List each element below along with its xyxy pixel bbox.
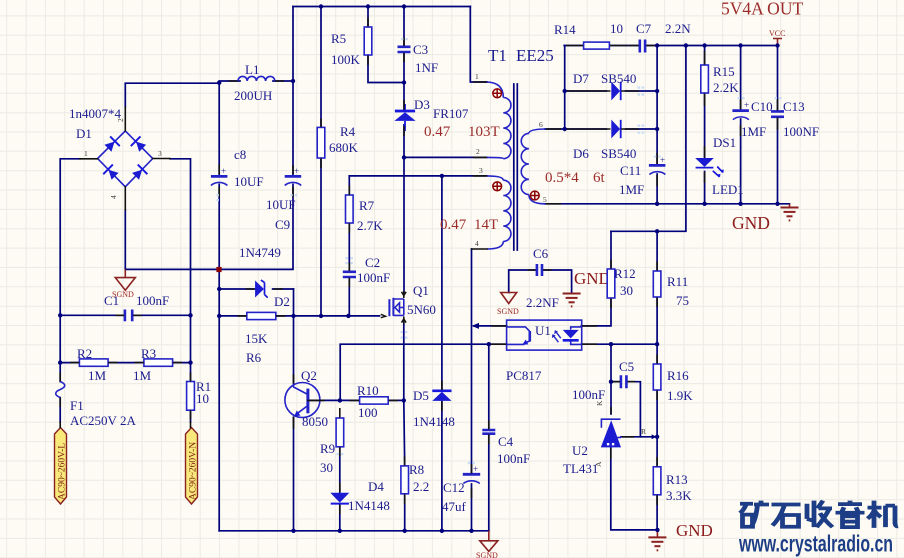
svg-text:C2: C2 [365, 255, 380, 270]
svg-text:+: + [221, 166, 226, 176]
wire C5 node to TL431 cathode [610, 382, 612, 414]
svg-text:3: 3 [479, 166, 483, 175]
wire T1 pin4 chain down to C12 [471, 249, 473, 474]
wire C4 bottom to rail [488, 434, 490, 531]
node out rail DS1 [702, 202, 706, 206]
svg-text:FR107: FR107 [433, 106, 469, 121]
svg-text:1n4007*4: 1n4007*4 [69, 106, 122, 121]
node C5 tap [609, 380, 613, 384]
svg-text:100: 100 [358, 405, 378, 420]
node vcc rail fb [684, 43, 688, 47]
node out rail C13 [775, 202, 779, 206]
capacitor C13 [771, 111, 784, 116]
wire feedback row to VCC drop [611, 46, 686, 232]
pin R5 [367, 18, 369, 66]
wire R12 top to feedback node [610, 231, 612, 269]
svg-text:10UF: 10UF [266, 197, 296, 212]
node L1 right [291, 79, 295, 83]
wire TL431 ref row [621, 436, 657, 438]
svg-text:0.5*4: 0.5*4 [545, 170, 579, 186]
ground GND earth bottom [648, 537, 666, 550]
svg-text:100K: 100K [331, 52, 361, 67]
svg-text:D2: D2 [274, 294, 290, 309]
svg-text:10UF: 10UF [234, 174, 264, 189]
wire T1 pin3 row [349, 175, 487, 177]
wire R13 bottom to GND node [656, 495, 658, 530]
wire TL431 anode to GND node [611, 447, 658, 530]
svg-text:LED1: LED1 [712, 182, 744, 197]
svg-text:0.47: 0.47 [440, 217, 467, 233]
svg-text:2: 2 [476, 147, 480, 156]
wire L1 left pin [219, 80, 240, 82]
pin D2 [246, 288, 284, 290]
svg-text:14T: 14T [474, 217, 498, 233]
wire drain node down to Q1 drain [403, 157, 405, 294]
node rail R8 [403, 529, 407, 533]
svg-text:4: 4 [475, 239, 479, 248]
svg-text:103T: 103T [468, 124, 500, 140]
svg-text:100nF: 100nF [572, 387, 605, 402]
svg-text:D3: D3 [414, 97, 430, 112]
diode D5 [432, 391, 451, 401]
svg-text:100nF: 100nF [357, 270, 390, 285]
wire fuse F1 bottom to port AC-L [59, 398, 61, 422]
svg-text:30: 30 [620, 283, 633, 298]
T1 primary winding 103T [487, 82, 511, 159]
node gate R4 [319, 314, 323, 318]
pin R2 [70, 362, 118, 364]
diode D2 zener [255, 280, 268, 298]
wire D5 anode to bottom rail [441, 401, 443, 531]
ground GND C6 earth [563, 294, 581, 307]
svg-text:D4: D4 [368, 479, 384, 494]
node gate D2 [291, 314, 295, 318]
svg-text:C5: C5 [619, 359, 634, 374]
wire opto anode to R12 [581, 298, 611, 326]
junction red dot [216, 267, 221, 272]
node K row R12 [609, 342, 613, 346]
pin D7 [567, 90, 640, 92]
svg-text:www.crystalradio.cn: www.crystalradio.cn [738, 531, 893, 557]
capacitor C5 [621, 375, 627, 388]
svg-text:D1: D1 [76, 126, 92, 141]
wire Q2 emitter to bottom rail [293, 417, 295, 531]
pin C13 [777, 99, 779, 130]
svg-text:3.3K: 3.3K [666, 488, 692, 503]
wire D6 cathode to bus [626, 128, 658, 130]
svg-text:R10: R10 [357, 383, 379, 398]
ground SGND bridge [112, 269, 135, 299]
wire R13 top pin [656, 437, 658, 467]
resistor R16 [653, 364, 661, 390]
capacitor C1 [125, 310, 132, 322]
svg-text:100nF: 100nF [136, 293, 169, 308]
pin R3 [135, 362, 183, 364]
wire R8 bottom to rail [404, 494, 406, 531]
node rail D4 [338, 529, 342, 533]
svg-text:SB540: SB540 [601, 146, 636, 161]
svg-text:DS1: DS1 [713, 135, 736, 150]
pin C10 [740, 99, 742, 136]
svg-text:GND: GND [574, 269, 611, 288]
T1 polarity dot primary [493, 89, 502, 98]
capacitor C2 [343, 272, 356, 277]
svg-text:2.2: 2.2 [413, 479, 429, 494]
wire secondary bottom rail [545, 203, 790, 205]
wire L1 node down to C9 top [292, 81, 294, 175]
svg-text:C6: C6 [533, 246, 549, 261]
wire R4 top to HV bus [320, 7, 322, 128]
wire C11 bottom to output rail [656, 174, 658, 204]
svg-text:15K: 15K [245, 331, 268, 346]
svg-text:D6: D6 [573, 146, 589, 161]
node C4 top [487, 342, 491, 346]
capacitor C3 [398, 47, 411, 52]
pin C6 [528, 269, 552, 271]
svg-text:R: R [641, 427, 646, 436]
svg-text:AC250V 2A: AC250V 2A [70, 413, 136, 428]
svg-text:C4: C4 [498, 434, 514, 449]
pin R10 [350, 399, 399, 401]
pin C11 [656, 153, 658, 186]
node vcc rail C10 [738, 43, 742, 47]
pin D6 [567, 128, 640, 130]
wire C6 right [543, 270, 572, 293]
wire D7 anode row [565, 90, 607, 92]
svg-text:3: 3 [158, 149, 162, 158]
wire opto collector row [474, 325, 507, 327]
ground SGND bottom rail [476, 531, 498, 558]
wire C5 right to ref row [627, 382, 640, 437]
node R2 left [58, 360, 62, 364]
wire C10 bottom to rail [740, 119, 742, 204]
wire C3 top [403, 7, 405, 47]
capacitor C9 [285, 166, 302, 186]
wire D7 cathode to bus [626, 90, 658, 92]
node pin3 tap [440, 174, 444, 178]
svg-text:R3: R3 [141, 346, 156, 361]
svg-text:AC90~260V-N: AC90~260V-N [189, 442, 199, 500]
pin C2 [348, 263, 350, 288]
optocoupler U1 PC817 [507, 320, 582, 350]
node D7 anode [563, 89, 567, 93]
transformer T1 core [514, 84, 518, 250]
svg-text:8050: 8050 [302, 414, 328, 429]
svg-text:+: + [744, 100, 749, 110]
svg-text:2.2K: 2.2K [713, 80, 739, 95]
svg-text:SGND: SGND [112, 290, 134, 299]
pin D4 [339, 483, 341, 515]
diode D3 [394, 104, 415, 131]
pin R13 [656, 457, 658, 505]
bridge rectifier D1 [80, 107, 170, 210]
svg-text:R12: R12 [614, 266, 636, 281]
wire R10 right to sense node [388, 399, 404, 401]
T1 polarity dot secondary [530, 191, 539, 200]
svg-text:680K: 680K [329, 140, 359, 155]
svg-text:C11: C11 [620, 163, 641, 178]
ground GND earth output [781, 208, 799, 221]
resistor R5 [364, 27, 372, 55]
svg-text:47uf: 47uf [442, 499, 467, 514]
svg-text:L1: L1 [245, 62, 259, 77]
node vcc rail C13 [775, 43, 779, 47]
wire snubber node to D3 cathode [403, 83, 405, 111]
watermark logo [740, 501, 898, 528]
svg-text:5N60: 5N60 [407, 302, 436, 317]
diode D7 [611, 82, 620, 101]
wire bridge pin2 to DC+ node [125, 83, 219, 107]
svg-text:10: 10 [196, 391, 209, 406]
wire Q1 source down to sense node [403, 322, 405, 400]
node D2 left [217, 287, 221, 291]
svg-text:1N4148: 1N4148 [413, 414, 455, 429]
capacitor C12 [463, 464, 480, 484]
mosfet Q1 [381, 291, 406, 324]
svg-text:10: 10 [610, 21, 623, 36]
node fb R11 [655, 229, 659, 233]
svg-text:Q2: Q2 [301, 368, 317, 383]
node drain [402, 155, 406, 159]
svg-text:C13: C13 [783, 99, 805, 114]
svg-text:R14: R14 [554, 22, 576, 37]
svg-text:2.7K: 2.7K [357, 218, 383, 233]
node HV bus R4 [319, 4, 323, 8]
pin D3 [403, 100, 405, 136]
node rail D5 [440, 529, 444, 533]
wire opto emitter row to Q2 base node [340, 344, 506, 400]
wire R14 left corner [564, 45, 583, 47]
port AC90~260V-N [186, 422, 199, 504]
svg-text:+: + [294, 166, 299, 176]
svg-text:VCC: VCC [769, 29, 785, 38]
svg-text:0.47: 0.47 [424, 124, 451, 140]
resistor R14 [584, 42, 610, 49]
node HV bus C3 [402, 4, 406, 8]
svg-text:R9: R9 [320, 441, 335, 456]
svg-text:+: + [473, 464, 478, 474]
wire D2 row [219, 288, 293, 290]
shunt regulator U2 TL431 [601, 419, 657, 447]
node Q2 base [338, 398, 342, 402]
pin T1-2 [473, 156, 487, 158]
diode D4 [330, 493, 349, 504]
wire T1 pin1 drop from HV bus [470, 7, 487, 83]
svg-text:R11: R11 [667, 274, 688, 289]
node R3 right [188, 360, 192, 364]
resistor R11 [653, 271, 661, 297]
svg-text:C3: C3 [413, 42, 428, 57]
svg-text:TL431: TL431 [563, 461, 598, 476]
pin U2 [611, 407, 634, 459]
wire C9 bottom to SGND row [219, 185, 293, 270]
svg-text:30: 30 [320, 460, 333, 475]
svg-text:1M: 1M [133, 368, 152, 383]
svg-text:1: 1 [475, 72, 479, 81]
svg-text:Q1: Q1 [413, 283, 429, 298]
pin C7 [629, 45, 655, 47]
pin R7 [348, 186, 350, 234]
svg-text:U2: U2 [572, 443, 588, 458]
svg-text:D7: D7 [573, 71, 589, 86]
node C1 right [188, 313, 192, 317]
port AC90~260V-L [55, 422, 68, 504]
wire R16 top pin [656, 344, 658, 364]
wire bridge pin3 to AC-N line [170, 159, 191, 382]
resistor R10 [360, 397, 389, 404]
resistor R13 [653, 467, 661, 495]
wire C13 top pin [777, 46, 779, 111]
wire gate row [219, 315, 379, 317]
wire GND stem bottom [656, 530, 658, 537]
wire c8 top vertical [218, 83, 220, 175]
resistor R15 [701, 65, 709, 93]
pin T1-3 [473, 175, 487, 177]
wire sense node to R8 [403, 400, 406, 466]
node gate C2 [346, 314, 350, 318]
svg-text:75: 75 [676, 293, 689, 308]
svg-text:C9: C9 [275, 217, 290, 232]
wire R4 bottom to gate row [320, 158, 322, 316]
svg-text:GND: GND [732, 213, 770, 233]
pin T1-6 [546, 128, 561, 130]
power VCC symbol [769, 29, 785, 46]
T1 polarity dot aux [493, 182, 502, 191]
wire R1 bottom to port AC-N [190, 410, 192, 422]
wire R2 R3 row [60, 362, 190, 364]
node gate R6 left [217, 314, 221, 318]
pin C1 [116, 314, 142, 316]
wire pin3 chain down to D5 [441, 176, 443, 390]
node out rail C11 [655, 202, 659, 206]
svg-text:C10: C10 [751, 99, 773, 114]
wire R11 top pin [656, 231, 658, 271]
capacitor C4 [482, 430, 495, 434]
wire primary bottom rail [219, 530, 489, 532]
wire output GND stem [789, 204, 791, 207]
T1 aux winding 14T [472, 176, 511, 249]
wire snubber drop x564 [564, 46, 566, 130]
svg-text:100nF: 100nF [497, 451, 530, 466]
pin R6 [238, 315, 286, 317]
wire D4 cathode to rail [339, 504, 341, 531]
svg-text:c8: c8 [234, 147, 246, 162]
node gnd [655, 528, 659, 532]
pin R16 [656, 355, 658, 401]
resistor R1 [187, 382, 195, 411]
svg-text:R4: R4 [340, 124, 356, 139]
capacitor C11 [649, 155, 666, 175]
svg-text:1MF: 1MF [619, 182, 644, 197]
node rail C12 [469, 529, 473, 533]
svg-text:C7: C7 [636, 21, 652, 36]
svg-text:1N4148: 1N4148 [348, 498, 390, 513]
capacitor c8 [211, 166, 228, 186]
node vcc rail C7 [655, 43, 659, 47]
wire VCC top rail [646, 45, 778, 47]
svg-text:R7: R7 [359, 198, 375, 213]
wire R15 top pin [704, 46, 706, 66]
wire C3 bottom to snubber node [403, 53, 405, 83]
component pin stubs (black) [60, 18, 777, 515]
node vcc rail R15 [702, 43, 706, 47]
wire drain node to T1 pin2 [404, 156, 487, 158]
wire C1 row right [133, 314, 191, 316]
wire C5 left pin [611, 381, 620, 383]
diode D6 [611, 120, 620, 139]
pin T1-1 [473, 81, 487, 83]
svg-text:SGND: SGND [497, 307, 519, 316]
resistor R6 [247, 312, 276, 319]
svg-text:5: 5 [543, 195, 547, 204]
svg-text:AC90~260V-L: AC90~260V-L [58, 443, 68, 500]
wire opto cathode row [581, 343, 657, 345]
wire R15 bottom to DS1 [704, 93, 706, 158]
svg-text:1NF: 1NF [415, 60, 438, 75]
svg-text:R2: R2 [77, 346, 92, 361]
resistor R3 [144, 359, 173, 366]
node ref [655, 435, 659, 439]
wire Q2 base to R10 [308, 399, 360, 401]
pin C5 [612, 381, 635, 383]
node rail Q2 [291, 529, 295, 533]
node pin6 [563, 127, 567, 131]
resistor R9 [336, 418, 344, 447]
pin end markers [217, 38, 782, 464]
wire T1 pin6 row to D6 [545, 128, 607, 130]
svg-text:F1: F1 [70, 398, 84, 413]
svg-text:U1: U1 [535, 323, 551, 338]
svg-text:4: 4 [109, 195, 118, 199]
pin C3 [403, 38, 405, 63]
pin L1 [229, 80, 285, 82]
wire c8 bottom to bottom rail [218, 185, 220, 531]
opto collector arrow [472, 323, 480, 329]
svg-text:PC817: PC817 [506, 368, 542, 383]
wire K node down to C5 node [610, 344, 612, 382]
capacitor C7 [640, 40, 645, 53]
svg-text:1.9K: 1.9K [667, 388, 693, 403]
svg-text:5V4A OUT: 5V4A OUT [721, 0, 803, 19]
T1 secondary winding 6t [521, 129, 545, 204]
node out rail C10 [738, 202, 742, 206]
wire R11 bottom to K node [656, 297, 658, 344]
transistor Q2 [285, 375, 324, 428]
node K row R11 [655, 342, 659, 346]
node D6 cathode [655, 127, 659, 131]
capacitor C10 [732, 100, 749, 120]
svg-text:1M: 1M [88, 368, 107, 383]
svg-text:+: + [660, 155, 665, 165]
pin C4 [488, 421, 490, 445]
wire D2 node down to gate row and Q2 collector [293, 289, 295, 383]
pin T1-5 [546, 203, 561, 205]
wire bridge pin4 down [124, 210, 126, 269]
wire top HV bus [293, 6, 470, 8]
pin R9 [339, 408, 341, 456]
svg-text:K: K [595, 400, 604, 406]
svg-text:1: 1 [84, 149, 88, 158]
node DC+ c8 [217, 81, 221, 85]
wire C4 top to emitter row [488, 344, 490, 429]
resistor R12 [607, 269, 615, 298]
wire R5 bottom to snubber node [368, 55, 404, 83]
pin U1 [491, 326, 597, 344]
svg-text:GND: GND [676, 521, 713, 540]
wire SGND row from bridge [125, 268, 219, 270]
node snubber [402, 80, 406, 84]
node HV bus R5 [366, 4, 370, 8]
